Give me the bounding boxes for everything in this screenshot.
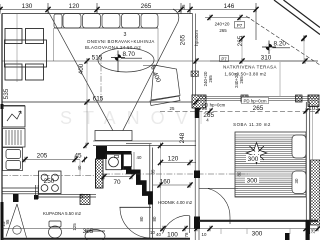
svg-text:8.70: 8.70 (123, 51, 136, 58)
svg-text:hp=0cm: hp=0cm (194, 30, 199, 46)
svg-text:40: 40 (156, 232, 161, 237)
hall top wall band (93, 141, 196, 146)
soba door arc (208, 189, 230, 225)
svg-text:80: 80 (139, 216, 144, 221)
windowsill hatch (191, 71, 199, 77)
svg-text:265: 265 (253, 105, 264, 112)
svg-text:8.20: 8.20 (274, 41, 287, 48)
ext line x280 (279, 62, 281, 96)
terrace vert ext (242, 37, 304, 61)
hall wall black seg top (194, 171, 200, 179)
washing machine (106, 154, 122, 170)
window post 2 (296, 95, 303, 102)
svg-text:KUPAONA 5.50 m2: KUPAONA 5.50 m2 (43, 211, 82, 216)
svg-text:265: 265 (141, 3, 152, 10)
level marker 8.20 (262, 41, 290, 55)
svg-text:160: 160 (160, 179, 171, 186)
dim 615 (84, 99, 89, 105)
bed dim 300 (246, 155, 260, 162)
svg-text:146: 146 (224, 3, 235, 10)
dash-dot axis mid (104, 173, 250, 175)
chair 2 (26, 29, 44, 44)
svg-text:25: 25 (170, 106, 175, 111)
terrace corner diagonals (274, 0, 320, 35)
big hatch wall kitchen/hall (96, 159, 104, 188)
wall hatch seg (80, 195, 90, 205)
svg-text:3: 3 (124, 32, 127, 38)
wall black corner right (306, 220, 310, 240)
dim 515 (2, 60, 318, 62)
pillow 2 (292, 171, 306, 194)
svg-text:265: 265 (208, 75, 213, 83)
svg-text:265: 265 (219, 28, 227, 33)
bed (235, 132, 306, 197)
dim 70 (104, 176, 132, 178)
svg-text:DNEVNI BORAVAK+KUHINJA: DNEVNI BORAVAK+KUHINJA (87, 39, 154, 44)
chair 1 (5, 29, 22, 44)
right wall (306, 102, 309, 234)
svg-text:35: 35 (181, 4, 186, 9)
svg-text:30: 30 (294, 178, 299, 183)
soba door jamb bottom (194, 217, 200, 230)
svg-text:25: 25 (79, 193, 84, 198)
svg-text:95: 95 (5, 219, 10, 224)
svg-text:80: 80 (237, 171, 242, 176)
top wall (2, 13, 193, 15)
svg-text:45: 45 (74, 153, 82, 160)
svg-text:HODNIK 4.00 m2: HODNIK 4.00 m2 (158, 200, 193, 205)
sofa (54, 14, 158, 29)
svg-text:PO hp=0cm: PO hp=0cm (202, 103, 226, 108)
svg-text:40: 40 (137, 155, 142, 160)
wall black seg (13, 194, 19, 202)
svg-text:35: 35 (151, 169, 156, 174)
svg-text:STANOVI: STANOVI (60, 108, 215, 128)
svg-text:PD hp=0cm: PD hp=0cm (244, 99, 267, 104)
dim 160 (153, 184, 192, 186)
svg-text:SOBA 11.30 m2: SOBA 11.30 m2 (233, 122, 271, 127)
dining table (5, 40, 47, 67)
svg-text:70: 70 (113, 179, 121, 186)
chair 4 (26, 64, 44, 80)
level marker 8.70 (111, 51, 142, 73)
svg-text:40: 40 (77, 165, 82, 170)
svg-text:1,60x0,50=3.80 m2: 1,60x0,50=3.80 m2 (225, 72, 267, 77)
section dash-dot vertical (100, 55, 102, 102)
niche top wall black (106, 151, 132, 154)
corner wall hatch block (192, 95, 206, 108)
svg-text:78: 78 (184, 232, 189, 237)
dim 240+20 with P7 box (205, 17, 250, 19)
diagonal view line A (48, 11, 118, 140)
sofa side lines (54, 28, 159, 61)
svg-text:300: 300 (248, 156, 259, 163)
top dimension line (0, 3, 256, 40)
svg-text:265: 265 (180, 34, 187, 45)
leader line (143, 65, 158, 67)
window post 1 (241, 95, 248, 102)
kitchen top wall line (2, 105, 25, 107)
bed star ornament (246, 143, 267, 164)
svg-text:205: 205 (37, 153, 48, 160)
ellipse highlight (98, 48, 154, 72)
soba wall verticals (195, 108, 199, 240)
kitchen counter island (95, 131, 132, 141)
svg-text:25: 25 (311, 228, 316, 233)
soba bottom wall (199, 220, 318, 222)
corner block right (308, 95, 319, 107)
outside hatch band (311, 160, 320, 225)
diagonal view line B (118, 9, 179, 140)
kitchen-bath wall (2, 188, 96, 197)
svg-text:300: 300 (247, 178, 258, 185)
stove (39, 171, 62, 194)
P7 box 2 (220, 56, 229, 62)
svg-text:130: 130 (22, 3, 33, 10)
svg-text:385: 385 (83, 228, 94, 235)
bath sink (85, 230, 105, 240)
wall bath/hall vertical (150, 144, 153, 238)
dash-dot section line kitchen (2, 175, 96, 177)
stepped wall bath/hall (126, 172, 150, 205)
svg-text:125: 125 (72, 223, 77, 231)
soba top dim row (160, 111, 318, 113)
svg-text:250: 250 (44, 178, 55, 185)
ext line 103 (312, 104, 314, 160)
bathroom entry door (6, 204, 27, 238)
svg-text:300: 300 (252, 231, 263, 238)
svg-text:265: 265 (203, 112, 214, 119)
svg-text:P7: P7 (237, 23, 243, 28)
svg-text:310: 310 (261, 55, 272, 62)
svg-text:120: 120 (168, 156, 179, 163)
svg-text:100: 100 (167, 232, 178, 239)
terrace dashed roof line (246, 16, 320, 65)
cabinet striped (3, 129, 26, 148)
bottom wall left (2, 238, 190, 240)
svg-text:240+20: 240+20 (215, 22, 230, 27)
terrace window band (198, 97, 318, 101)
pillow 1 (292, 135, 306, 158)
svg-text:120: 120 (69, 3, 80, 10)
soba door leaf (199, 187, 238, 189)
svg-text:80: 80 (152, 216, 157, 221)
wall living/kitchen horizontal (2, 101, 193, 103)
fridge (3, 106, 26, 127)
armchair tilted (150, 65, 180, 106)
svg-text:10: 10 (202, 232, 207, 237)
dryer box (123, 154, 131, 166)
svg-text:NATKRIVENA TERASA: NATKRIVENA TERASA (223, 65, 277, 70)
dim 205 (22, 159, 80, 161)
svg-text:535: 535 (3, 88, 10, 99)
svg-text:248: 248 (179, 132, 186, 143)
bed blanket lines (235, 135, 306, 197)
bathroom door arc (120, 207, 151, 238)
black divider (121, 154, 123, 170)
dim 120 hall (161, 162, 197, 164)
bottom dimension line (2, 228, 318, 230)
niche divider line (133, 152, 135, 171)
chair 3 (5, 64, 22, 80)
svg-text:P7: P7 (221, 56, 227, 61)
left wall (1, 14, 3, 240)
dim 310 (210, 60, 318, 62)
svg-text:265: 265 (239, 76, 244, 84)
sink unit (3, 148, 23, 171)
toilet (49, 221, 62, 238)
bathroom door leaf (120, 206, 152, 208)
hodnik door arc (163, 215, 190, 233)
extension line x17 (16, 14, 18, 82)
window wall vertical x=195 (193, 14, 196, 96)
